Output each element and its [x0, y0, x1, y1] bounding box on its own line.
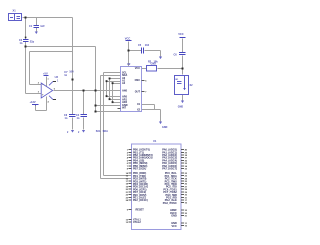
nodes near U2 left	[109, 78, 111, 80]
svg-text:OUT: OUT	[135, 90, 141, 93]
svg-text:GND: GND	[178, 105, 184, 108]
capacitor C4	[81, 115, 88, 117]
wire VCC to C5	[129, 50, 142, 52]
C4 branch	[83, 91, 85, 115]
svg-text:U1: U1	[153, 139, 157, 143]
ground under C3	[71, 130, 74, 133]
svg-text:22p: 22p	[30, 41, 35, 44]
node above C2	[25, 37, 27, 39]
svg-text:1n: 1n	[64, 74, 67, 77]
svg-text:PB7_(SCK): PB7_(SCK)	[133, 168, 146, 171]
SCL bus wire	[104, 72, 121, 74]
wire outer loop right	[95, 47, 97, 112]
MCU left pin labels	[133, 149, 153, 224]
node on VCC drop	[128, 50, 130, 52]
svg-text:PE2_(OC1C): PE2_(OC1C)	[133, 199, 148, 202]
ground for C5	[159, 57, 162, 60]
wire C1 leads	[36, 18, 38, 26]
node right rail	[182, 68, 184, 70]
connector J1	[9, 14, 22, 21]
MCU right pin labels	[162, 149, 177, 228]
ground for X loop	[159, 122, 162, 125]
node J1 branch	[25, 17, 27, 19]
link wires left of U2	[110, 78, 121, 80]
svg-text:1n: 1n	[77, 117, 80, 120]
svg-text:SDA: SDA	[103, 130, 108, 133]
resistor R2	[147, 66, 157, 72]
U2 left pin labels	[122, 71, 128, 109]
svg-text:1n: 1n	[20, 42, 23, 45]
wire gnd rail to U2	[96, 111, 142, 113]
capacitor C1	[34, 26, 40, 28]
wire R2 to rail	[142, 68, 147, 70]
svg-text:GND: GND	[171, 215, 177, 218]
svg-text:INT: INT	[122, 107, 127, 110]
svg-text:RESET: RESET	[136, 209, 145, 212]
svg-text:-: -	[42, 83, 43, 87]
U2 right pin labels	[135, 67, 141, 111]
wire inner loop top	[30, 51, 73, 53]
svg-text:104: 104	[145, 44, 150, 47]
svg-text:104: 104	[69, 71, 74, 74]
wire vertical x72 long	[72, 18, 74, 115]
node feedback tap	[25, 46, 27, 48]
wire minus input	[30, 84, 42, 86]
svg-text:1nF: 1nF	[40, 25, 45, 28]
ground under C1	[35, 32, 38, 35]
wire opamp V+ stub	[46, 77, 48, 87]
crystal block X2	[175, 76, 189, 95]
capacitor C2	[23, 40, 29, 42]
svg-text:U2: U2	[127, 62, 131, 66]
ground under C4	[82, 130, 85, 133]
svg-text:VCC: VCC	[172, 225, 177, 228]
SDA bus wire	[101, 75, 121, 77]
svg-text:X1: X1	[13, 9, 17, 13]
node x72	[72, 79, 74, 81]
svg-text:10k: 10k	[154, 60, 159, 63]
svg-text:PG3_/TOSC: PG3_/TOSC	[163, 202, 177, 205]
svg-text:SCL: SCL	[96, 130, 101, 133]
ground under crystal block	[181, 101, 184, 104]
nodes on output wire	[83, 90, 85, 92]
svg-text:1n: 1n	[65, 117, 68, 120]
svg-text:XTAL2: XTAL2	[133, 221, 141, 224]
svg-text:U3: U3	[55, 75, 59, 79]
wire vertical x26	[25, 18, 27, 40]
wire +12V run	[35, 106, 37, 111]
X1 X2 gnd loop	[142, 104, 155, 106]
MCU left pin stubs	[129, 150, 132, 223]
svg-text:+12V: +12V	[30, 100, 36, 104]
wire J1 to x72	[23, 17, 73, 19]
U2 pin stubs	[118, 81, 145, 109]
svg-text:AN0: AN0	[122, 90, 128, 93]
svg-text:VCC: VCC	[135, 67, 140, 70]
wire plus input	[26, 93, 42, 95]
wire inner loop left	[29, 52, 31, 85]
output wire	[54, 90, 121, 92]
capacitor C3	[69, 115, 76, 117]
svg-text:VCC: VCC	[178, 32, 184, 36]
capacitor C6	[179, 53, 186, 55]
right rail vertical	[182, 39, 184, 53]
wire U2 gnd pin	[96, 105, 121, 107]
svg-text:PA7_(ADC7): PA7_(ADC7)	[162, 168, 177, 171]
op-amp U3 triangle	[41, 81, 53, 99]
svg-text:GND: GND	[162, 126, 168, 129]
svg-text:OSC: OSC	[135, 79, 141, 82]
wire outer loop top	[26, 46, 96, 48]
+5V flag op-amp	[44, 75, 49, 77]
svg-text:+5V: +5V	[43, 71, 48, 75]
MCU right pin stubs	[181, 150, 184, 226]
VCC drop into U2	[128, 42, 130, 67]
capacitor C5	[142, 48, 144, 54]
